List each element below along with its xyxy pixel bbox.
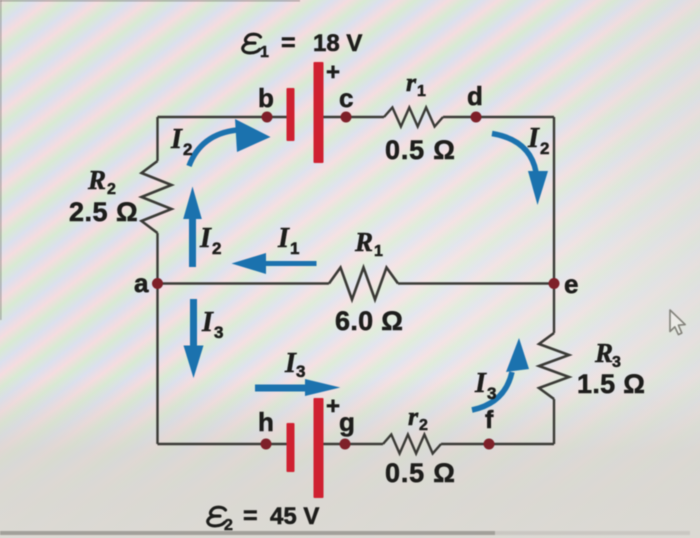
svg-text:1.5 Ω: 1.5 Ω bbox=[577, 369, 645, 399]
value 0.5 ohm (r2) bbox=[385, 458, 456, 488]
svg-text:R: R bbox=[594, 338, 613, 368]
current arrow I3 down (left branch below a) bbox=[184, 299, 204, 378]
svg-text:2: 2 bbox=[183, 140, 192, 159]
node h bbox=[261, 439, 272, 450]
current arrow I2 curved top-left bbox=[189, 119, 271, 166]
label current I3 bottom-right bbox=[474, 368, 496, 403]
battery E1 positive plate bbox=[314, 62, 324, 163]
label node e bbox=[564, 269, 578, 299]
svg-text:2: 2 bbox=[212, 239, 221, 258]
wire left segment (top corner to a to bottom corner) bbox=[156, 117, 158, 444]
wire top segment (b-c top rail from left corner to right corner) bbox=[158, 116, 555, 118]
battery E2 plus sign bbox=[326, 393, 340, 420]
svg-text:=: = bbox=[281, 29, 296, 57]
resistor R1 bbox=[329, 268, 398, 300]
svg-text:I: I bbox=[277, 223, 290, 254]
label node b bbox=[258, 83, 274, 113]
svg-text:2.5 Ω: 2.5 Ω bbox=[69, 197, 138, 227]
svg-text:a: a bbox=[134, 268, 149, 298]
svg-text:c: c bbox=[339, 83, 353, 113]
battery E1 negative plate bbox=[287, 88, 295, 141]
node c bbox=[341, 112, 352, 123]
battery E1 plus sign bbox=[326, 59, 340, 86]
node g bbox=[340, 439, 351, 450]
battery E2 negative plate bbox=[287, 423, 295, 472]
resistor r1 bbox=[384, 108, 443, 127]
svg-text:I: I bbox=[201, 307, 214, 338]
current arrow I3 curved bottom-right bbox=[472, 338, 529, 410]
svg-text:2: 2 bbox=[224, 517, 233, 534]
label current I3 bottom branch bbox=[284, 348, 305, 381]
svg-text:0.5 Ω: 0.5 Ω bbox=[385, 458, 456, 488]
battery E2 positive plate bbox=[314, 398, 324, 498]
label node f bbox=[485, 406, 494, 434]
svg-text:3: 3 bbox=[214, 323, 223, 342]
svg-text:d: d bbox=[467, 81, 483, 111]
svg-text:I: I bbox=[170, 124, 183, 155]
label current I2 left branch bbox=[199, 223, 221, 258]
svg-text:1: 1 bbox=[417, 83, 426, 100]
node e bbox=[549, 278, 560, 289]
label r2 bbox=[408, 402, 428, 434]
svg-text:2: 2 bbox=[107, 181, 116, 198]
resistor R3 bbox=[539, 333, 569, 399]
value 1.5 ohm (R3) bbox=[577, 369, 645, 399]
label node h bbox=[258, 407, 274, 437]
resistor r2 bbox=[383, 435, 441, 454]
svg-text:I: I bbox=[199, 223, 212, 254]
label current I1 middle branch bbox=[277, 223, 299, 258]
wire right segment (top corner to e to bottom corner) bbox=[553, 117, 555, 444]
node a bbox=[152, 278, 163, 289]
svg-text:45 V: 45 V bbox=[270, 503, 319, 530]
svg-text:=: = bbox=[243, 502, 258, 530]
node d bbox=[471, 112, 482, 123]
wire bottom segment (h-g bottom rail) bbox=[158, 443, 555, 445]
svg-text:R: R bbox=[354, 227, 373, 257]
mouse cursor bbox=[670, 310, 685, 335]
svg-text:r: r bbox=[406, 68, 417, 97]
label R2 bbox=[87, 165, 116, 198]
svg-text:2: 2 bbox=[419, 417, 428, 434]
svg-text:I: I bbox=[474, 368, 487, 399]
label R1 bbox=[354, 227, 383, 260]
current arrow I3 right (bottom branch) bbox=[255, 379, 340, 396]
svg-text:e: e bbox=[564, 269, 578, 299]
svg-text:r: r bbox=[408, 402, 419, 431]
value 0.5 ohm (r1) bbox=[385, 135, 456, 165]
label current I2 top-right bbox=[527, 123, 549, 158]
wire middle segment (a to e through R1) bbox=[158, 282, 555, 284]
svg-text:3: 3 bbox=[487, 384, 496, 403]
svg-text:h: h bbox=[258, 407, 274, 437]
label R3 bbox=[594, 338, 621, 371]
label node c bbox=[339, 83, 353, 113]
node f bbox=[484, 439, 495, 450]
svg-text:18 V: 18 V bbox=[313, 30, 362, 57]
label EMF E2 = 45 V bbox=[208, 502, 320, 534]
svg-text:I: I bbox=[527, 123, 540, 154]
label current I3 left branch bbox=[201, 307, 223, 342]
current arrow I1 left (middle branch) bbox=[232, 253, 317, 274]
svg-text:g: g bbox=[339, 407, 355, 437]
svg-text:+: + bbox=[326, 393, 340, 420]
svg-text:1: 1 bbox=[290, 239, 299, 258]
svg-text:b: b bbox=[258, 83, 274, 113]
value 2.5 ohm (R2) bbox=[69, 197, 138, 227]
svg-text:6.0 Ω: 6.0 Ω bbox=[335, 306, 403, 336]
current arrow I2 curved top-right bbox=[492, 134, 548, 206]
label r1 bbox=[406, 68, 426, 100]
label EMF E1 = 18 V bbox=[243, 29, 363, 61]
svg-text:R: R bbox=[87, 165, 106, 195]
node b bbox=[262, 112, 273, 123]
svg-text:1: 1 bbox=[260, 44, 269, 61]
svg-text:f: f bbox=[485, 406, 494, 434]
label current I2 top-left bbox=[170, 124, 192, 159]
svg-text:0.5 Ω: 0.5 Ω bbox=[385, 135, 456, 165]
svg-text:2: 2 bbox=[540, 139, 549, 158]
svg-text:1: 1 bbox=[374, 243, 383, 260]
svg-text:3: 3 bbox=[296, 362, 305, 381]
current arrow I2 straight up (left branch) bbox=[183, 187, 202, 268]
value 6.0 ohm (R1) bbox=[335, 306, 403, 336]
resistor R2 bbox=[142, 161, 172, 233]
label node d bbox=[467, 81, 483, 111]
label node a bbox=[134, 268, 149, 298]
svg-text:+: + bbox=[326, 59, 340, 86]
label node g bbox=[339, 407, 355, 437]
